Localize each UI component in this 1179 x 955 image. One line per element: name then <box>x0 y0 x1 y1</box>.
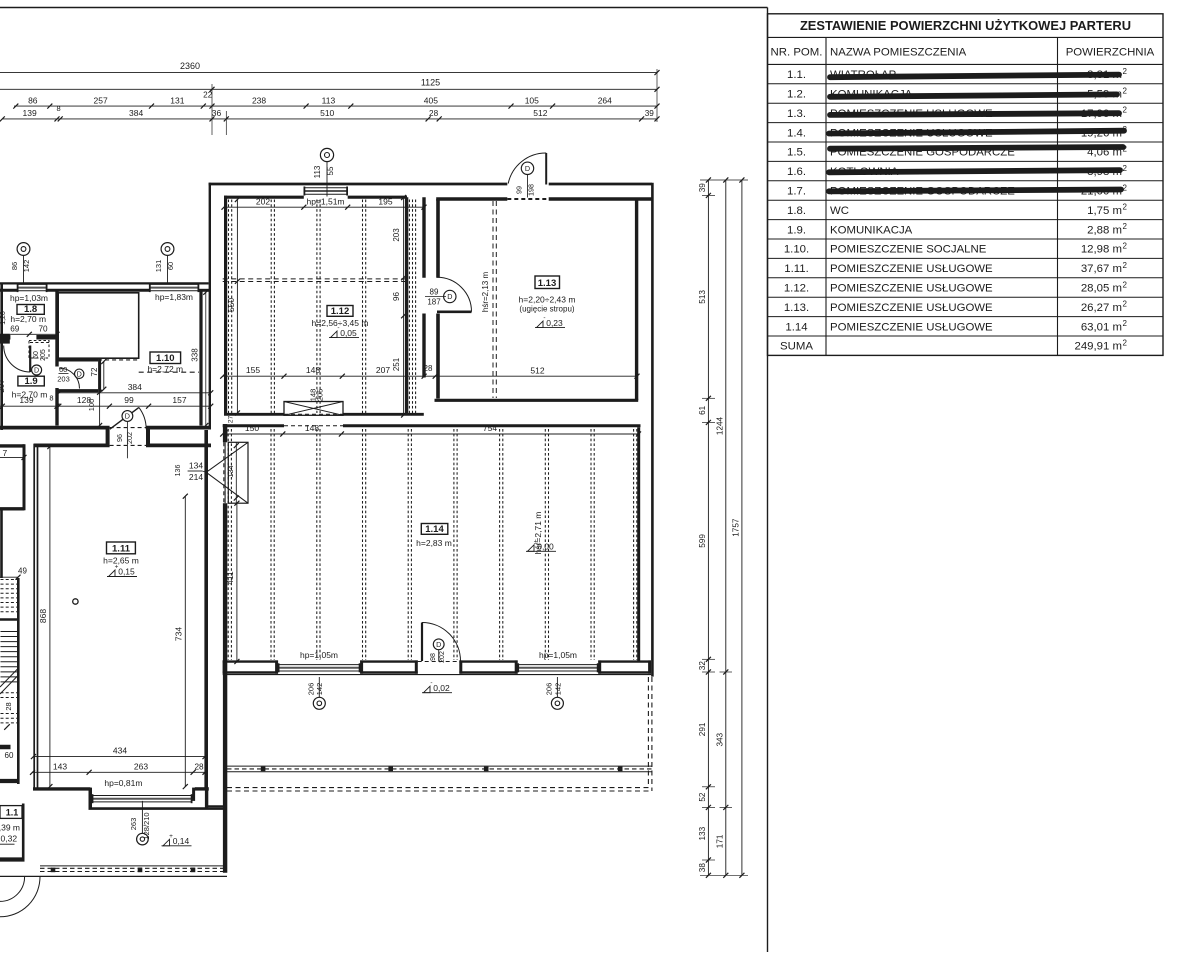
dim 384 <box>59 392 211 394</box>
svg-text:139: 139 <box>19 395 33 405</box>
svg-text:60: 60 <box>59 365 67 374</box>
room label 1.12 <box>327 306 353 317</box>
opening dashes below chimney <box>284 413 343 415</box>
room 1.13 west wall <box>436 199 440 278</box>
svg-text:133: 133 <box>698 826 707 840</box>
svg-text:1.7.: 1.7. <box>787 186 806 198</box>
svg-text:754: 754 <box>483 423 497 433</box>
svg-text:1.1.: 1.1. <box>787 69 806 81</box>
svg-text:32: 32 <box>698 661 707 671</box>
room 1.11 east wall <box>204 430 208 788</box>
main interior wall upper (left block bottom) <box>0 426 110 430</box>
svg-text:KOMUNIKACJA: KOMUNIKACJA <box>830 224 913 236</box>
level mark 0,23 in 1.13 <box>535 327 565 329</box>
room 1.8 east wall <box>55 290 58 367</box>
dimension line 2360 <box>0 72 657 74</box>
svg-text:264: 264 <box>598 95 612 105</box>
svg-text:22: 22 <box>203 91 213 100</box>
svg-text:1.10: 1.10 <box>156 353 175 364</box>
room label 1.11 <box>107 542 136 554</box>
room label 1.9 <box>18 376 44 386</box>
room 1.11 west wall <box>33 444 35 788</box>
interior dim 734 (1.11) <box>184 496 186 786</box>
svg-text:-: - <box>543 315 545 322</box>
svg-text:hp=1,05m: hp=1,05m <box>539 650 577 660</box>
svg-text:27: 27 <box>227 416 234 424</box>
svg-text:POMIESZCZENIE USŁUGOWE: POMIESZCZENIE USŁUGOWE <box>830 321 993 333</box>
svg-text:131: 131 <box>154 260 163 273</box>
svg-text:205: 205 <box>315 389 324 402</box>
svg-text:28,05 m: 28,05 m <box>1081 283 1122 295</box>
svg-text:h=2,83 m: h=2,83 m <box>416 538 452 548</box>
stairs dashed flight C <box>1 692 18 694</box>
svg-text:NAZWA POMIESZCZENIA: NAZWA POMIESZCZENIA <box>830 46 967 58</box>
svg-text:1244: 1244 <box>715 416 724 435</box>
svg-text:150: 150 <box>245 423 259 433</box>
dashed partition 1.10 <box>139 371 199 373</box>
right dimension chain 2 (1244 343 171) <box>725 180 727 875</box>
bottom windows hp=1,05m <box>278 664 360 666</box>
redaction bar row 1.6 <box>829 170 1120 172</box>
svg-text:D: D <box>447 292 452 301</box>
svg-text:8: 8 <box>57 104 61 113</box>
dim 49 <box>0 576 18 578</box>
svg-text:h=2,65 m: h=2,65 m <box>103 556 139 566</box>
svg-text:195: 195 <box>378 196 392 206</box>
svg-text:2: 2 <box>1123 222 1128 231</box>
svg-text:28: 28 <box>4 702 13 710</box>
svg-text:D: D <box>436 640 441 649</box>
svg-text:63,01 m: 63,01 m <box>1081 321 1122 333</box>
svg-text:134: 134 <box>189 460 203 470</box>
dim 128 99 157 <box>59 405 211 407</box>
bottom wall outer thin line <box>223 674 651 676</box>
svg-text:202: 202 <box>439 651 446 663</box>
svg-text:2: 2 <box>1123 300 1128 309</box>
svg-text:249,91 m: 249,91 m <box>1075 341 1123 353</box>
dashed ceiling line in 1.13 with hsr=2,13 <box>492 201 494 398</box>
svg-text:1.13: 1.13 <box>538 278 557 289</box>
svg-text:2,88 m: 2,88 m <box>1087 224 1122 236</box>
room 1.13 bottom wall <box>435 399 639 402</box>
svg-text:734: 734 <box>173 627 183 641</box>
svg-text:263: 263 <box>129 818 138 831</box>
room 1.13 east wall <box>635 199 638 400</box>
svg-text:131: 131 <box>170 95 184 105</box>
hatch room 1.12 (joist dashed pairs) <box>228 200 230 414</box>
table: room schedule ZESTAWIENIE POWIERZCHNI <box>768 14 1164 356</box>
svg-text:1.14: 1.14 <box>785 321 807 333</box>
svg-text:1,26: 1,26 <box>0 311 7 325</box>
svg-text:338: 338 <box>190 348 199 362</box>
outer wall top <box>209 183 508 186</box>
dim row 155 148 207 28 512 <box>223 375 637 377</box>
svg-text:0,05: 0,05 <box>340 328 357 338</box>
svg-text:h=2,20÷2,43 m: h=2,20÷2,43 m <box>519 294 576 304</box>
svg-text:+: + <box>169 833 173 840</box>
svg-text:-: - <box>430 680 432 687</box>
svg-text:291: 291 <box>698 722 707 736</box>
window symbol circle 263 128/210 <box>137 833 149 845</box>
window hp=1,03m (room 1.8) <box>17 283 47 285</box>
door D 99/198 top exterior <box>545 153 547 185</box>
interior dim 868 (1.11) <box>49 447 51 787</box>
wall right of 1.1 <box>22 804 25 862</box>
stairs strip east wall <box>17 578 20 784</box>
svg-text:134: 134 <box>226 465 235 478</box>
svg-text:38: 38 <box>698 863 707 873</box>
svg-text:1.12.: 1.12. <box>784 283 809 295</box>
bottom terrace lines <box>227 765 652 767</box>
svg-text:44: 44 <box>224 429 231 437</box>
redaction bar row 1.1 <box>830 75 1119 78</box>
svg-text:8: 8 <box>49 394 53 403</box>
square void in 1.10 <box>58 293 139 358</box>
ceiling dashed line across 1.12 <box>223 278 406 280</box>
svg-text:202: 202 <box>256 196 270 206</box>
hatch room 1.14 (joist dashed pairs) <box>227 429 229 660</box>
svg-text:510: 510 <box>320 108 334 118</box>
outer wall right <box>651 183 654 677</box>
svg-text:1.14: 1.14 <box>425 524 444 535</box>
svg-text:39: 39 <box>645 109 655 118</box>
svg-text:hp=1,51m: hp=1,51m <box>306 196 344 206</box>
dim 72 corridor <box>103 362 105 390</box>
svg-text:0,15: 0,15 <box>118 567 135 577</box>
svg-text:1125: 1125 <box>421 78 440 88</box>
redaction bar row 1.2 <box>830 94 1117 96</box>
svg-text:60: 60 <box>166 262 175 270</box>
svg-text:1.2.: 1.2. <box>787 89 806 101</box>
window hp=1,83m (room 1.10) <box>149 283 199 285</box>
svg-text:52: 52 <box>698 792 707 802</box>
dimension chain row 2 (139 8 384 36 510 28 512 39) <box>2 118 657 120</box>
svg-text:60: 60 <box>33 351 40 359</box>
door D 89/187 between corridor and 1.13 <box>437 310 472 313</box>
door jamb piers 96/202 <box>106 430 110 444</box>
svg-text:2: 2 <box>1123 203 1128 212</box>
svg-text:2: 2 <box>1123 280 1128 289</box>
svg-text:411: 411 <box>225 571 235 585</box>
passage 134/214 between 1.11 and 1.14 <box>228 442 248 503</box>
svg-text:148: 148 <box>306 365 320 375</box>
shower dashed box in 1.9 <box>29 341 49 359</box>
svg-text:POMIESZCZENIE USŁUGOWE: POMIESZCZENIE USŁUGOWE <box>830 263 993 275</box>
svg-text:86: 86 <box>28 95 38 105</box>
dim 139 8 (1.9) <box>0 405 59 407</box>
svg-text:h=2,56÷3,45 m: h=2,56÷3,45 m <box>312 318 369 328</box>
svg-text:60: 60 <box>5 751 14 760</box>
main interior wall lower (1.11 top) <box>34 443 110 447</box>
svg-text:171: 171 <box>715 834 724 848</box>
svg-text:203: 203 <box>57 374 70 383</box>
svg-text:0,00: 0,00 <box>537 542 554 552</box>
svg-text:28: 28 <box>424 364 433 373</box>
svg-text:1.11: 1.11 <box>112 544 131 555</box>
stairs solid flight B <box>1 631 18 633</box>
svg-text:1.1: 1.1 <box>6 807 19 817</box>
svg-text:2: 2 <box>1123 86 1128 95</box>
window hp=0,81m <box>92 795 192 797</box>
dimension chain row 1 (86 257 131 22 238 113 405 105 264) <box>14 105 657 107</box>
svg-text:98: 98 <box>430 653 437 661</box>
left block top inner wall <box>0 289 17 292</box>
left block top outer wall <box>0 282 209 284</box>
svg-text:POWIERZCHNIA: POWIERZCHNIA <box>1066 46 1155 58</box>
stairs dashed flight A <box>1 579 18 581</box>
window symbol circle 86/142 <box>17 243 30 256</box>
dim 100 <box>99 392 101 425</box>
small circle dot in 1.11 <box>73 599 78 604</box>
svg-text:202: 202 <box>125 432 134 444</box>
sheet frame top line <box>0 7 768 9</box>
svg-text:hp=1,05m: hp=1,05m <box>300 650 338 660</box>
stair break lines <box>0 669 18 687</box>
svg-text:207: 207 <box>0 379 6 393</box>
wall between 1.12 and corridor <box>405 197 408 414</box>
svg-text:105: 105 <box>525 95 539 105</box>
level mark 0,14 terrace <box>162 845 192 847</box>
svg-text:1.10.: 1.10. <box>784 244 809 256</box>
room 1.1 label box <box>0 806 22 819</box>
long west wall of 1.14 block <box>223 424 227 442</box>
dim 202 / hp=1,51m / 195 <box>224 206 424 208</box>
svg-text:49: 49 <box>18 567 27 576</box>
svg-text:1.9: 1.9 <box>24 376 37 387</box>
room 1.12 inner walls <box>224 196 304 199</box>
door 96/202 leaf and arc <box>110 419 124 429</box>
svg-text:2360: 2360 <box>180 61 200 71</box>
right dimension chain 1 (39 513 61 599 32 291 52 133 38) <box>707 180 709 875</box>
low wall below flight A <box>0 618 18 621</box>
svg-text:+: + <box>115 564 119 571</box>
svg-text:1.8.: 1.8. <box>787 205 806 217</box>
svg-text:0,23: 0,23 <box>546 318 563 328</box>
svg-text:D: D <box>77 369 82 378</box>
svg-text:POMIESZCZENIE USŁUGOWE: POMIESZCZENIE USŁUGOWE <box>830 302 993 314</box>
svg-text:hp=0,81m: hp=0,81m <box>104 778 142 788</box>
svg-text:86: 86 <box>10 262 19 270</box>
niche walls in corridor <box>57 358 99 361</box>
svg-text:0,14: 0,14 <box>173 836 190 846</box>
svg-text:±: ± <box>534 538 538 545</box>
svg-text:hśr=2,13 m: hśr=2,13 m <box>481 272 490 313</box>
closet room top-left <box>0 444 24 447</box>
left edge pier <box>0 334 10 344</box>
interior dim 411 (1.14) <box>236 503 238 661</box>
svg-text:96: 96 <box>115 434 124 442</box>
svg-text:155: 155 <box>246 365 260 375</box>
room 1.14 east inner wall <box>637 427 640 661</box>
witness lines right chains <box>700 179 748 181</box>
room 1.14 top wall <box>223 424 284 427</box>
svg-text:ZESTAWIENIE POWIERZCHNI UŻYTKO: ZESTAWIENIE POWIERZCHNI UŻYTKOWEJ PARTER… <box>800 18 1131 33</box>
dim 69 70 (room 1.8) <box>0 333 57 335</box>
svg-text:28: 28 <box>429 109 439 118</box>
svg-text:142: 142 <box>315 683 324 696</box>
svg-text:WC: WC <box>830 205 849 217</box>
svg-text:1,75 m: 1,75 m <box>1087 205 1122 217</box>
svg-text:99: 99 <box>515 186 524 194</box>
svg-text:205: 205 <box>40 349 47 361</box>
svg-text:h=2,72 m: h=2,72 m <box>147 364 183 374</box>
svg-text:207: 207 <box>376 365 390 375</box>
svg-text:1.4.: 1.4. <box>787 127 806 139</box>
room label 1.14 <box>421 524 448 535</box>
svg-text:2: 2 <box>1123 319 1128 328</box>
svg-text:405: 405 <box>424 95 438 105</box>
svg-text:-: - <box>337 325 339 332</box>
svg-text:0,02: 0,02 <box>433 683 450 693</box>
interior dim 550 in 1.12 <box>236 200 238 414</box>
door D 98/202 bottom <box>421 623 423 662</box>
room label 1.13 <box>535 276 560 289</box>
chimney/duct symbol below 1.12 <box>284 402 343 416</box>
redaction bar row 1.3 <box>830 113 1119 115</box>
corridor east wall (1.12 side) <box>422 197 425 278</box>
witness lines top dims <box>211 84 213 135</box>
svg-text:113: 113 <box>322 95 336 105</box>
cut dimension line at closet <box>0 456 24 458</box>
svg-text:113: 113 <box>313 165 322 178</box>
svg-text:128/210: 128/210 <box>142 812 151 839</box>
svg-text:434: 434 <box>113 746 127 756</box>
svg-text:512: 512 <box>530 365 544 375</box>
left terrace edge lines <box>40 865 227 867</box>
left block east wall <box>199 290 202 426</box>
dimension line 1125 <box>0 88 657 90</box>
dim 338 between blocks <box>205 292 207 425</box>
wall below stairs <box>0 779 20 783</box>
room 1.11 bottom wall <box>33 787 90 790</box>
svg-text:36: 36 <box>212 108 222 118</box>
svg-text:157: 157 <box>172 395 186 405</box>
svg-text:128: 128 <box>77 395 91 405</box>
window symbol circle 113/55 <box>320 148 333 161</box>
svg-text:hp=1,83m: hp=1,83m <box>155 292 193 302</box>
svg-text:238: 238 <box>252 95 266 105</box>
svg-text:513: 513 <box>698 290 707 304</box>
svg-text:POMIESZCZENIE SOCJALNE: POMIESZCZENIE SOCJALNE <box>830 244 987 256</box>
svg-text:2,39 m: 2,39 m <box>0 823 20 833</box>
svg-text:2: 2 <box>1123 242 1128 251</box>
bay window walls <box>89 788 93 809</box>
svg-text:343: 343 <box>715 732 724 746</box>
svg-text:187: 187 <box>427 298 441 307</box>
svg-text:384: 384 <box>129 108 143 118</box>
svg-text:263: 263 <box>134 761 148 771</box>
svg-text:70: 70 <box>38 324 48 333</box>
svg-text:SUMA: SUMA <box>780 341 813 353</box>
level mark 0,00 in 1.14 <box>526 550 556 552</box>
svg-text:7: 7 <box>3 448 8 458</box>
svg-text:143: 143 <box>53 761 67 771</box>
landing wall piece <box>0 745 11 750</box>
svg-text:203: 203 <box>392 228 401 242</box>
svg-text:D: D <box>125 412 130 421</box>
dim 434 <box>33 756 205 758</box>
svg-text:198: 198 <box>527 184 536 196</box>
svg-text:136: 136 <box>175 465 182 477</box>
svg-text:1757: 1757 <box>731 518 740 537</box>
svg-text:1.12: 1.12 <box>331 306 350 317</box>
svg-text:72: 72 <box>90 367 99 376</box>
bottom wall piers (outlined) <box>223 660 278 662</box>
window symbol circles 206/142 bottom <box>313 697 325 709</box>
svg-text:39: 39 <box>698 183 707 193</box>
svg-text:512: 512 <box>533 108 547 118</box>
svg-text:142: 142 <box>22 260 31 273</box>
svg-text:1.3.: 1.3. <box>787 108 806 120</box>
window hp=1,51m in 1.12 top wall <box>304 187 348 189</box>
svg-text:2: 2 <box>1123 261 1128 270</box>
svg-text:0,32: 0,32 <box>1 834 18 844</box>
svg-text:89: 89 <box>430 287 439 296</box>
window symbol circle 131/60 <box>161 243 174 256</box>
outer wall left (top block) <box>209 183 211 426</box>
svg-text:257: 257 <box>94 95 108 105</box>
svg-text:55: 55 <box>326 166 335 175</box>
door 60/203 (1.9 to corridor) <box>59 368 80 389</box>
svg-text:384: 384 <box>128 382 142 392</box>
redaction bar row 1.4 <box>829 131 1124 134</box>
svg-text:37,67 m: 37,67 m <box>1081 263 1122 275</box>
svg-text:1.9.: 1.9. <box>787 224 806 236</box>
svg-text:1.6.: 1.6. <box>787 166 806 178</box>
svg-text:142: 142 <box>553 683 562 696</box>
svg-text:26,27 m: 26,27 m <box>1081 302 1122 314</box>
room label 1.10 <box>150 352 181 364</box>
svg-text:251: 251 <box>392 357 401 371</box>
svg-text:868: 868 <box>38 609 48 623</box>
svg-text:96: 96 <box>392 292 401 301</box>
dim 150 148 754 <box>223 433 640 435</box>
svg-text:99: 99 <box>124 395 134 405</box>
level mark 0,05 in 1.12 <box>329 337 359 339</box>
svg-text:1.11.: 1.11. <box>784 263 809 275</box>
vertical dim 203/96/251 right of 1.12 <box>403 198 405 416</box>
door 1.8/1.9 <box>29 346 31 373</box>
redaction bar row 1.5 <box>830 147 1123 149</box>
svg-text:2: 2 <box>1123 164 1128 173</box>
level mark 0,02 below door <box>422 692 452 694</box>
svg-text:h=2,70 m: h=2,70 m <box>10 314 46 324</box>
svg-text:(ugięcie stropu): (ugięcie stropu) <box>519 304 574 313</box>
svg-text:2: 2 <box>1123 339 1128 348</box>
left edge wall <box>0 283 3 430</box>
dim 143 263 28 <box>33 771 206 773</box>
svg-text:2: 2 <box>1123 67 1128 76</box>
svg-text:599: 599 <box>698 534 707 548</box>
svg-text:550: 550 <box>226 298 236 312</box>
svg-text:D: D <box>34 366 39 375</box>
stairs strip west edge wall <box>0 510 3 578</box>
redaction bar row 1.7 <box>829 190 1121 192</box>
svg-text:hp=1,03m: hp=1,03m <box>10 293 48 303</box>
left terrace posts <box>51 868 56 873</box>
svg-text:28: 28 <box>194 762 204 771</box>
room 1.13 top wall <box>436 197 507 200</box>
svg-text:69: 69 <box>10 324 20 333</box>
bottom terrace posts <box>261 767 266 772</box>
wall between 1.8 and 1.9 <box>0 335 10 340</box>
svg-text:61: 61 <box>698 405 707 415</box>
right dimension chain 3 (1757) <box>741 180 743 875</box>
svg-text:NR. POM.: NR. POM. <box>771 46 823 58</box>
svg-text:139: 139 <box>23 108 37 118</box>
svg-text:2: 2 <box>1123 106 1128 115</box>
svg-text:D: D <box>525 164 530 173</box>
